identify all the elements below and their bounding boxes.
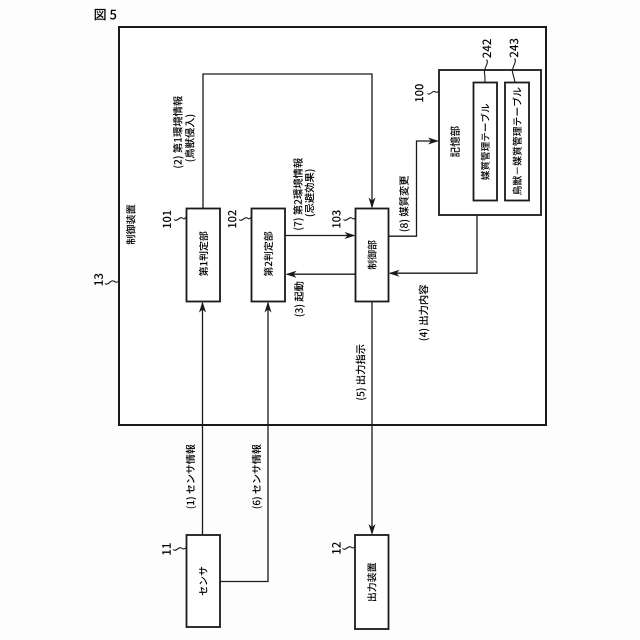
box 第2判定部 102 — [252, 209, 286, 302]
figure title 図5 — [95, 9, 117, 21]
arrowhead (3) left into 第2判定部 — [286, 271, 297, 278]
leader squiggle 11 — [173, 548, 187, 551]
box センサ 11 — [187, 535, 221, 627]
outer box 制御装置 13 — [119, 27, 546, 425]
text 第2判定部 — [264, 232, 273, 277]
reference numeral 242 — [483, 39, 492, 58]
arrowhead (8) right into 記憶部 — [428, 138, 439, 145]
label (2) 第1環境情報 — [173, 96, 184, 168]
label (4) 出力内容 — [419, 285, 430, 341]
arrowhead (4) left into 制御部 — [389, 270, 400, 277]
label (忌避効果) — [305, 170, 316, 217]
reference numeral 12 — [332, 542, 341, 554]
leader squiggle 243 — [512, 59, 515, 83]
label (6) センサ情報 — [252, 444, 262, 508]
wire (1) sensor to 第1判定部 — [202, 303, 204, 535]
label (3) 起動 — [294, 282, 305, 317]
text 鳥獣－媒質管理テーブル — [512, 87, 521, 195]
box 媒質管理テーブル 242 — [474, 83, 498, 201]
wire (7) 第2判定部 to 制御部 — [285, 235, 354, 237]
box 制御部 103 — [356, 209, 389, 302]
box 記憶部 100 — [439, 70, 541, 215]
wire (2) 第1判定部 to 制御部 top loop — [203, 74, 372, 208]
text センサ — [199, 567, 207, 596]
text 出力装置 — [367, 563, 376, 601]
reference numeral 100 — [415, 84, 423, 101]
reference numeral 103 — [332, 210, 340, 227]
label (鳥獣侵入) — [185, 115, 196, 162]
reference numeral 243 — [510, 39, 519, 58]
leader squiggle 242 — [484, 60, 487, 83]
text 第1判定部 — [199, 232, 208, 277]
label (1) センサ情報 — [186, 444, 196, 508]
wire (4) 記憶部 to 制御部 — [390, 215, 477, 273]
arrowhead (6) up into 第2判定部 — [265, 302, 272, 313]
label (5) 出力指示 — [356, 345, 367, 400]
leader squiggle 100 — [428, 91, 440, 94]
reference numeral 11 — [162, 543, 171, 554]
leader squiggle 12 — [343, 547, 356, 550]
box 出力装置 12 — [355, 535, 389, 629]
box 第1判定部 101 — [187, 209, 221, 302]
reference numeral 102 — [228, 210, 236, 227]
arrowhead (7) right into 制御部 — [345, 232, 356, 239]
box 鳥獣－媒質管理テーブル 243 — [505, 83, 529, 201]
reference numeral 101 — [163, 211, 171, 228]
label 制御装置 — [126, 205, 135, 245]
wire (3) 制御部 to 第2判定部 — [287, 273, 356, 275]
arrowhead (1) up into 第1判定部 — [199, 302, 206, 313]
arrowhead (5) down into 出力装置 — [369, 524, 376, 535]
arrowhead (2) down into 制御部 — [369, 198, 376, 209]
wire (5) 制御部 to 出力装置 — [371, 302, 373, 533]
text 媒質管理テーブル — [481, 104, 490, 180]
text 記憶部 — [450, 126, 460, 157]
label (7) 第2環境情報 — [293, 158, 304, 230]
label (8) 媒質変更 — [399, 176, 410, 232]
wire (6) sensor to 第2判定部 — [220, 303, 268, 582]
leader squiggle 103 — [344, 218, 356, 221]
reference numeral 13 — [94, 274, 103, 286]
leader squiggle 101 — [174, 217, 187, 221]
text 制御部 — [367, 240, 376, 269]
leader squiggle 102 — [239, 217, 252, 220]
wire (8) 制御部 to 記憶部 — [389, 141, 438, 236]
leader squiggle 13 — [105, 281, 119, 284]
